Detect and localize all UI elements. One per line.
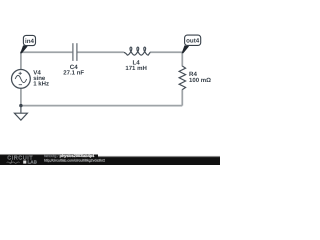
voltage source V4 sine symbol	[15, 75, 26, 82]
inductor L4 coil	[124, 47, 150, 55]
svg-text:R4: R4	[189, 71, 197, 78]
wire bottom rail	[21, 105, 182, 107]
svg-text:htlp;//circuitlab.com/circuit/: htlp;//circuitlab.com/circuit/8kg2vda3kr…	[44, 158, 105, 162]
ground symbol triangle	[14, 113, 27, 120]
watermark credit block background	[0, 154, 98, 165]
wire left rail upper segment	[20, 52, 22, 70]
wire left rail lower segment	[20, 88, 22, 105]
wire top rail right segment	[150, 51, 182, 53]
wire right rail upper segment	[181, 52, 183, 67]
watermark logo squiggle	[7, 162, 20, 163]
voltage source V4 circle	[12, 70, 31, 89]
capacitor C4 right plate	[76, 43, 78, 61]
wire top rail left segment	[21, 51, 73, 53]
capacitor C4 left plate	[72, 43, 74, 61]
watermark logo box glyph	[23, 161, 26, 164]
wire top rail middle segment	[77, 51, 124, 53]
svg-text:100 mΩ: 100 mΩ	[189, 77, 211, 84]
svg-text:1 kHz: 1 kHz	[33, 81, 49, 88]
ground symbol stem	[20, 106, 22, 113]
watermark logo C swirl tail	[10, 160, 12, 163]
svg-text:out4: out4	[186, 38, 200, 45]
flag out4 pointer wedge	[182, 45, 190, 53]
svg-text:in4: in4	[25, 38, 34, 45]
junction dot at ground node	[19, 104, 22, 107]
svg-text:LAB: LAB	[28, 160, 37, 165]
flag in4 pointer wedge	[20, 45, 28, 53]
wire right rail lower segment	[181, 89, 183, 105]
voltage source V4 plus sign	[19, 72, 22, 75]
svg-text:171 mH: 171 mH	[125, 65, 147, 72]
voltage source V4 minus sign	[19, 84, 22, 86]
flag in4 box	[23, 35, 35, 45]
svg-text:27.1 nF: 27.1 nF	[63, 70, 84, 77]
watermark bar background	[0, 156, 220, 165]
flag out4 box	[185, 35, 201, 45]
resistor R4 zigzag	[179, 66, 186, 90]
